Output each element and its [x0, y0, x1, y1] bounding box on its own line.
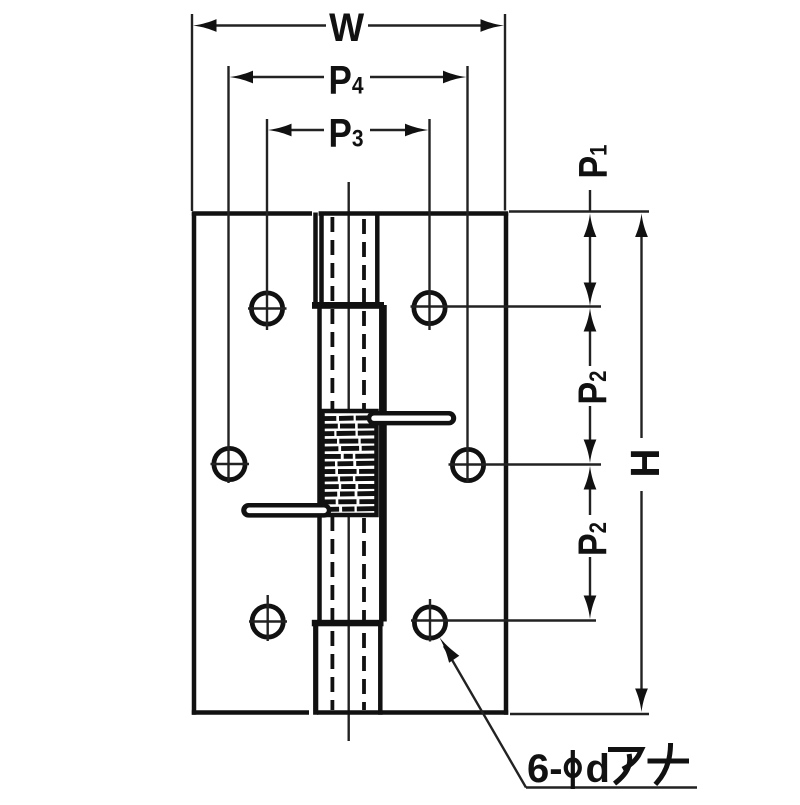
- P2 lower dimension line: [589, 488, 591, 598]
- knuckle joint lower: [312, 620, 384, 627]
- barrel middle knuckle: [320, 305, 382, 621]
- svg-text:H: H: [622, 449, 668, 478]
- W arrowheads: [193, 19, 217, 32]
- top edge extension line (right): [509, 210, 649, 212]
- knuckle joint upper: [312, 302, 384, 309]
- spring coil body: [323, 411, 377, 515]
- svg-text:W: W: [329, 6, 364, 50]
- P4 arrowheads: [230, 71, 254, 84]
- screw hole mid-right: [449, 449, 602, 480]
- screw hole bottom-right: [411, 599, 596, 642]
- screw hole mid-left: [211, 448, 250, 479]
- P3 dimension extension lines: [267, 119, 430, 330]
- screw hole top-right: [411, 292, 602, 323]
- screw hole bottom-left: [249, 595, 287, 641]
- right hinge plate: [317, 212, 508, 714]
- phi symbol: [566, 750, 580, 789]
- spring bottom arm: [249, 503, 325, 518]
- barrel top knuckle: [322, 213, 378, 308]
- P1 arrowheads: [584, 214, 597, 238]
- hidden pin-hole dashed lines: [332, 217, 364, 710]
- H dimension line: [640, 236, 642, 689]
- screw hole top-left: [248, 293, 287, 324]
- spring top arm: [374, 411, 449, 425]
- leader line to bottom-right hole: [444, 646, 697, 788]
- W dimension line: [216, 24, 481, 26]
- H arrowheads: [635, 214, 648, 238]
- barrel bottom knuckle: [316, 620, 381, 715]
- P2 upper arrowheads: [584, 308, 597, 332]
- katakana NA (ana): [650, 746, 687, 783]
- leader arrowhead: [440, 638, 460, 663]
- P1 dimension line with tail: [589, 190, 591, 285]
- P4 dimension extension lines: [229, 66, 468, 483]
- left hinge plate: [192, 212, 316, 714]
- svg-text:6-: 6-: [527, 747, 563, 791]
- katakana A (ana): [611, 750, 642, 783]
- svg-text:d: d: [586, 747, 610, 791]
- bottom edge extension line (right): [510, 713, 649, 715]
- P3 arrowheads: [268, 124, 292, 137]
- P4 dimension line: [252, 76, 444, 78]
- P3 dimension line: [290, 129, 406, 131]
- hinge pin centerline: [348, 182, 350, 741]
- W dimension extension lines: [192, 14, 505, 211]
- P2 lower arrowheads: [584, 466, 597, 490]
- spring coil turns: [324, 418, 376, 510]
- P2 upper dimension line: [589, 329, 591, 442]
